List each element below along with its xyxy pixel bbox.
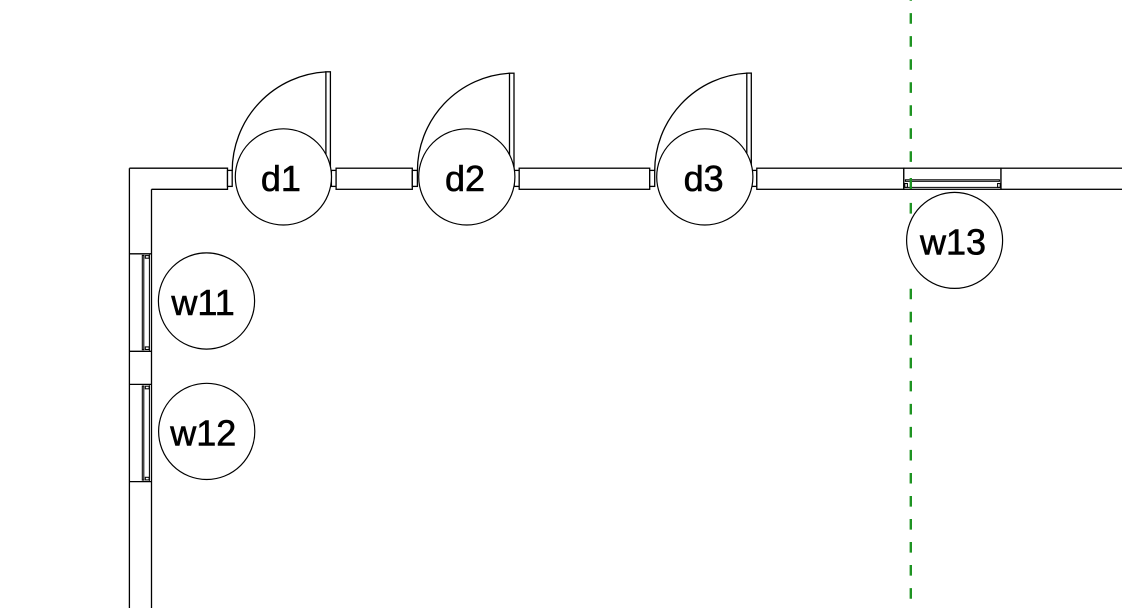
window w12 glass band: [142, 386, 144, 480]
wall left vertical: [129, 168, 151, 608]
door tag circle d3: [657, 129, 753, 225]
green dash below wall: [910, 203, 912, 214]
window w11 glass band: [142, 255, 144, 349]
door jamb d2 left: [412, 170, 417, 186]
window w11 opening bottom line: [129, 350, 151, 352]
window w13 stop right: [998, 184, 1001, 188]
window w11 stop top: [145, 256, 149, 259]
door jamb d3 right: [752, 170, 757, 186]
window tag circle w12: [159, 383, 255, 479]
door d3 leaf: [747, 73, 752, 171]
window w11 opening top line: [129, 253, 151, 255]
svg-text:d2: d2: [445, 158, 485, 199]
wall segment top-left corner: [129, 168, 227, 189]
window w12 opening bottom line: [129, 481, 151, 483]
door tag circle d1: [235, 129, 331, 225]
window w13 stop left: [905, 184, 908, 188]
green dash crossing wall: [910, 178, 912, 189]
window w13 glass band: [905, 180, 999, 182]
door jamb d2 right: [514, 170, 519, 186]
door d1 leaf: [326, 72, 331, 171]
green dashed reference line: [910, 0, 912, 173]
svg-text:w11: w11: [170, 282, 234, 323]
door jamb d1 right: [331, 170, 336, 186]
green dashed reference line lower part: [910, 289, 912, 608]
door d2 leaf: [510, 73, 515, 171]
svg-text:d3: d3: [684, 158, 724, 199]
window w11 stop bottom: [145, 347, 149, 350]
window w13 sill line: [905, 186, 1001, 188]
door jamb d3 left: [650, 170, 655, 186]
window w12 stop top: [145, 386, 149, 389]
window w12 sill line: [148, 385, 150, 481]
svg-text:d1: d1: [261, 158, 301, 199]
window w13 opening box: [904, 168, 1001, 189]
svg-text:w13: w13: [919, 221, 986, 262]
door jamb d1 left: [228, 170, 233, 186]
window tag circle w13: [907, 192, 1003, 288]
window w11 sill line: [148, 255, 150, 351]
door d3 swing arc: [655, 73, 747, 171]
wall segment between d3 and w13: [757, 168, 904, 189]
window tag circle w11: [158, 253, 254, 349]
svg-text:w12: w12: [169, 412, 236, 453]
door d2 swing arc: [417, 73, 509, 171]
wall segment right of w13: [1001, 168, 1122, 189]
wall segment between d1 and d2: [336, 168, 412, 189]
door tag circle d2: [419, 129, 515, 225]
window w12 stop bottom: [145, 477, 149, 480]
door d1 swing arc: [232, 72, 326, 171]
wall segment between d2 and d3: [519, 168, 650, 189]
window w12 opening top line: [129, 383, 151, 385]
